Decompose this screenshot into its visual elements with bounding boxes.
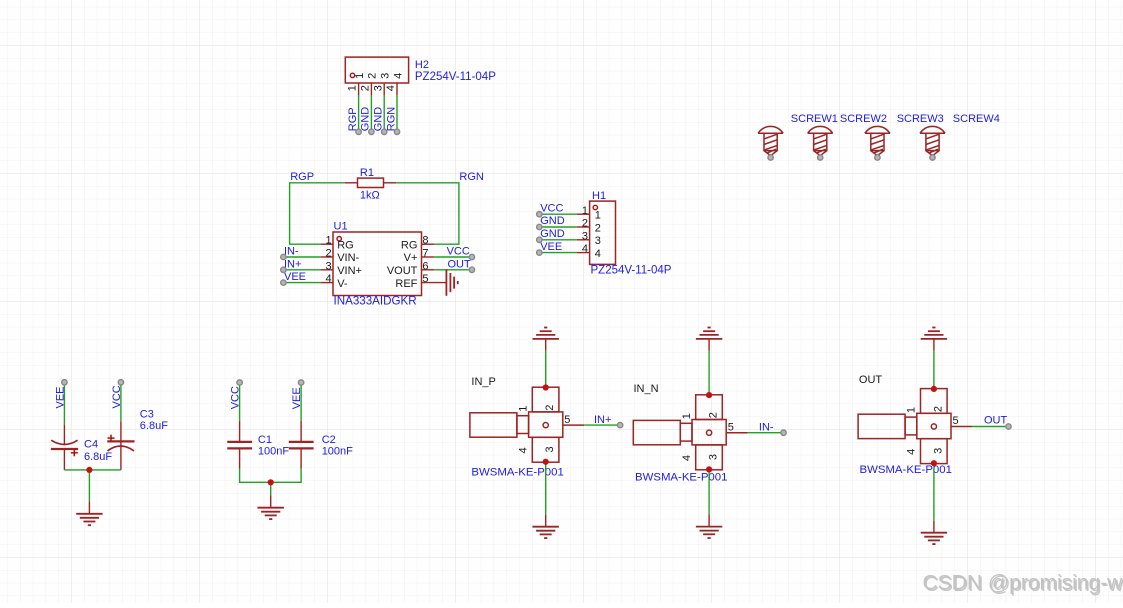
svg-text:6: 6: [422, 260, 428, 272]
svg-text:GND: GND: [540, 215, 565, 227]
junction IN_N top: [706, 392, 712, 398]
wire C1/C2 to ground: [240, 469, 302, 496]
wire net RGN from R1 to U1 pin8: [396, 183, 459, 244]
terminal dots U1 right: [469, 254, 474, 272]
svg-text:1kΩ: 1kΩ: [360, 189, 380, 201]
svg-text:3: 3: [582, 230, 588, 242]
svg-text:SCREW3: SCREW3: [897, 113, 944, 125]
svg-text:OUT: OUT: [984, 414, 1008, 426]
capacitor C3: [107, 421, 134, 470]
svg-text:VIN-: VIN-: [337, 252, 359, 264]
svg-text:RG: RG: [401, 239, 418, 251]
terminal dot SCREW4: [930, 155, 935, 160]
wire net IN+ from IN_P pin5: [584, 424, 620, 426]
svg-text:SCREW4: SCREW4: [953, 113, 1000, 125]
wire net VCC to H1 pin1: [539, 213, 576, 215]
svg-text:C2: C2: [322, 434, 336, 446]
ground C4/C3: [76, 514, 102, 525]
svg-text:3: 3: [380, 73, 392, 79]
svg-text:OUT: OUT: [448, 258, 472, 270]
svg-text:IN+: IN+: [284, 258, 301, 270]
svg-text:7: 7: [422, 248, 428, 260]
svg-text:RGN: RGN: [459, 171, 484, 183]
wire net IN- to U1 pin2: [283, 256, 320, 258]
svg-text:4: 4: [595, 248, 601, 260]
op-amp U1 INA333AIDGKR: [320, 232, 434, 296]
svg-text:2: 2: [325, 248, 331, 260]
svg-text:VCC: VCC: [540, 202, 563, 214]
terminal dot net IN+: [617, 422, 622, 427]
svg-text:V-: V-: [337, 278, 348, 290]
svg-text:V+: V+: [404, 252, 418, 264]
svg-text:PZ254V-11-04P: PZ254V-11-04P: [591, 264, 672, 276]
svg-text:VCC: VCC: [447, 246, 470, 258]
watermark CSDN: [923, 571, 1123, 595]
wire net VCC from U1 pin7: [434, 256, 472, 258]
svg-text:RGP: RGP: [290, 171, 314, 183]
svg-text:IN+: IN+: [594, 414, 611, 426]
svg-text:GND: GND: [360, 107, 372, 132]
wire net RGP from R1 to U1 pin1: [290, 183, 345, 244]
wire H2 pin1 net RGP: [358, 95, 360, 131]
capacitor C4: [51, 424, 78, 470]
wire net VEE at C2: [300, 383, 302, 421]
wire H2 pin2 net GND: [370, 95, 372, 131]
svg-text:2: 2: [360, 85, 372, 91]
svg-text:BWSMA-KE-P001: BWSMA-KE-P001: [471, 466, 563, 478]
junction IN_P bottom: [543, 459, 549, 465]
svg-text:U1: U1: [334, 220, 348, 232]
wire net OUT from U1 pin6: [434, 269, 472, 271]
capacitor C1: [227, 421, 252, 469]
svg-text:SCREW1: SCREW1: [791, 113, 838, 125]
svg-text:3: 3: [325, 260, 331, 272]
wire OUT bottom to ground: [933, 463, 935, 521]
wire H2 pin4 net RGN: [396, 95, 398, 131]
svg-text:CSDN @promising-w: CSDN @promising-w: [923, 571, 1123, 594]
svg-text:REF: REF: [395, 278, 417, 290]
wire net IN+ to U1 pin3: [283, 269, 320, 271]
connector IN_P (BWSMA-KE-P001, pins 1-5): [470, 387, 584, 462]
ground IN_P bottom: [533, 527, 559, 538]
connector H2: [345, 57, 408, 95]
screw SCREW4: [920, 126, 945, 155]
junction OUT top: [931, 386, 937, 392]
terminal dot C2 top: [298, 380, 303, 385]
svg-text:1: 1: [582, 205, 588, 217]
svg-text:2: 2: [595, 222, 601, 234]
svg-text:C4: C4: [84, 439, 98, 451]
ground stub IN_P top: [545, 339, 547, 351]
ground stub IN_N top: [708, 339, 710, 351]
ground IN_N bottom: [696, 527, 722, 538]
svg-text:VEE: VEE: [284, 271, 306, 283]
svg-text:1: 1: [595, 210, 601, 222]
wire net GND to H1 pin3: [539, 239, 576, 241]
ground at U1 REF (rotated): [446, 269, 457, 295]
terminal dot net IN-: [781, 430, 786, 435]
screw SCREW1: [758, 126, 783, 155]
ground OUT top (inverted): [921, 328, 947, 339]
wire net OUT from OUT pin5: [972, 426, 1008, 428]
terminal dot C4 top: [62, 380, 67, 385]
wire net IN- from IN_N pin5: [748, 432, 784, 434]
wire net VEE at C4: [63, 382, 65, 424]
svg-text:BWSMA-KE-P001: BWSMA-KE-P001: [635, 471, 727, 483]
svg-text:1: 1: [347, 85, 359, 91]
svg-text:4: 4: [385, 85, 397, 91]
ground OUT bottom: [921, 533, 947, 544]
screw SCREW2: [808, 126, 833, 155]
ground stub IN_N bottom: [708, 515, 710, 527]
svg-text:GND: GND: [540, 228, 565, 240]
svg-text:OUT: OUT: [859, 374, 883, 386]
ground IN_P top (inverted): [533, 328, 559, 339]
svg-text:1: 1: [325, 235, 331, 247]
svg-text:3: 3: [372, 85, 384, 91]
svg-text:1: 1: [354, 73, 366, 79]
svg-text:4: 4: [325, 273, 331, 285]
wire net VEE to H1 pin4: [539, 252, 576, 254]
svg-text:6.8uF: 6.8uF: [84, 451, 112, 463]
svg-text:VEE: VEE: [540, 241, 562, 253]
svg-text:C1: C1: [258, 434, 272, 446]
terminal dots H2: [356, 129, 400, 134]
svg-text:4: 4: [582, 243, 588, 255]
terminal dot C3 top: [118, 380, 123, 385]
svg-text:4: 4: [392, 73, 404, 79]
svg-text:C3: C3: [140, 408, 154, 420]
wire IN_P bottom to ground: [545, 462, 547, 515]
wire IN_N bottom to ground: [708, 469, 710, 514]
terminal dot SCREW3: [875, 155, 880, 160]
svg-text:INA333AIDGKR: INA333AIDGKR: [334, 294, 417, 307]
ground stub OUT top: [933, 339, 935, 351]
junction C1/C2 ground: [268, 479, 274, 485]
wire U1 REF pin to ground: [422, 282, 447, 284]
terminal dots H1: [537, 212, 542, 256]
svg-text:IN-: IN-: [759, 422, 774, 434]
resistor R1: [345, 178, 397, 187]
screw SCREW3: [865, 126, 890, 155]
svg-text:RGN: RGN: [385, 107, 397, 132]
connector H1: [577, 201, 616, 264]
svg-text:BWSMA-KE-P001: BWSMA-KE-P001: [860, 464, 952, 476]
svg-text:PZ254V-11-04P: PZ254V-11-04P: [415, 71, 496, 83]
ground stub C4/C3: [88, 501, 90, 513]
svg-text:8: 8: [422, 235, 428, 247]
svg-text:100nF: 100nF: [322, 445, 353, 457]
terminal dot SCREW1: [768, 155, 773, 160]
svg-text:IN_N: IN_N: [634, 383, 659, 395]
svg-text:2: 2: [367, 73, 379, 79]
junction C4/C3 ground: [86, 467, 92, 473]
svg-text:GND: GND: [373, 107, 385, 132]
junction IN_P top: [543, 384, 549, 390]
ground stub OUT bottom: [933, 521, 935, 533]
junction IN_N bottom: [706, 466, 712, 472]
svg-text:5: 5: [422, 273, 428, 285]
wire IN_P top to ground: [545, 351, 547, 388]
terminal dot net OUT: [1006, 424, 1011, 429]
svg-text:H2: H2: [415, 59, 429, 71]
terminal dots U1 left: [281, 254, 286, 285]
connector IN_N (BWSMA-KE-P001, pins 1-5): [633, 395, 747, 470]
ground stub IN_P bottom: [545, 515, 547, 527]
terminal dot SCREW2: [818, 155, 823, 160]
junction OUT bottom: [931, 460, 937, 466]
ground C1/C2: [258, 508, 284, 519]
ground IN_N top (inverted): [696, 328, 722, 339]
capacitor C2: [289, 421, 314, 469]
svg-text:VIN+: VIN+: [337, 265, 362, 277]
connector OUT (BWSMA-KE-P001, pins 1-5): [858, 389, 972, 464]
wire C4/C3 to ground: [64, 470, 121, 502]
svg-text:VOUT: VOUT: [387, 265, 418, 277]
svg-text:RGP: RGP: [347, 107, 359, 131]
svg-text:SCREW2: SCREW2: [840, 113, 887, 125]
svg-text:3: 3: [595, 235, 601, 247]
terminal dot C1 top: [237, 380, 242, 385]
svg-text:H1: H1: [592, 190, 606, 202]
wire net VCC at C3: [120, 382, 122, 421]
svg-text:2: 2: [582, 218, 588, 230]
wire IN_N top to ground: [708, 351, 710, 395]
svg-text:RG: RG: [337, 239, 354, 251]
wire net VCC at C1: [239, 383, 241, 421]
svg-text:100nF: 100nF: [258, 445, 289, 457]
wire net VEE to U1 pin4: [283, 282, 320, 284]
svg-text:6.8uF: 6.8uF: [140, 420, 168, 432]
wire H2 pin3 net GND: [383, 95, 385, 131]
svg-text:R1: R1: [360, 167, 374, 179]
svg-text:IN_P: IN_P: [471, 376, 495, 388]
wire OUT top to ground: [933, 351, 935, 389]
ground stub C1/C2: [270, 496, 272, 508]
wire net GND to H1 pin2: [539, 226, 576, 228]
